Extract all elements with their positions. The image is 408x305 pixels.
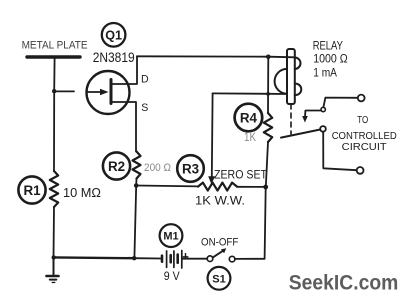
svg-text:2N3819: 2N3819 xyxy=(93,50,135,65)
relay coil loop bottom-right xyxy=(295,84,301,95)
wire bottom rail ground to battery xyxy=(54,256,135,259)
designator circle R4 xyxy=(235,104,263,132)
switch S1 contact left xyxy=(207,256,213,262)
designator circle S1 xyxy=(208,267,231,290)
svg-text:1 mA: 1 mA xyxy=(313,65,337,79)
designator circle R1 xyxy=(18,176,45,203)
svg-text:S1: S1 xyxy=(212,273,225,285)
node ground junction xyxy=(52,255,56,259)
wire battery to switch S1 xyxy=(183,258,207,260)
svg-text:TO: TO xyxy=(357,115,368,126)
node R2 bottom junction xyxy=(134,183,139,188)
transistor Q1 channel bar xyxy=(110,80,113,104)
wire drain node down to R4 xyxy=(267,57,269,113)
svg-text:SeekIC.com: SeekIC.com xyxy=(289,271,399,295)
wire R2 node to R3 xyxy=(136,185,198,188)
svg-text:CONTROLLED: CONTROLLED xyxy=(332,131,397,142)
ground xyxy=(47,257,59,282)
wire R1 to ground node xyxy=(53,207,56,257)
contact NC circle xyxy=(321,107,325,111)
svg-text:METAL PLATE: METAL PLATE xyxy=(22,39,88,51)
switch S1 blade xyxy=(213,251,223,257)
svg-text:1000 Ω: 1000 Ω xyxy=(313,52,348,66)
battery M1 plates xyxy=(162,251,182,269)
svg-text:Q1: Q1 xyxy=(105,28,122,42)
designator circle Q1 xyxy=(102,23,126,47)
wire R4 to zero-set node xyxy=(266,142,268,187)
node coil-bottom crossing xyxy=(266,92,270,96)
wire zero-set node down to S1 xyxy=(235,187,266,259)
designator circle R3 xyxy=(177,155,204,182)
node drain junction xyxy=(266,55,271,60)
battery plus sign xyxy=(183,254,188,259)
svg-text:ZERO SET: ZERO SET xyxy=(214,168,268,182)
designator circle R2 xyxy=(103,152,130,179)
wire gate node down to R1 xyxy=(53,91,55,171)
transistor Q1 gate arrow xyxy=(87,91,100,93)
svg-text:CIRCUIT: CIRCUIT xyxy=(342,142,388,153)
designator circle M1 xyxy=(160,224,183,247)
transistor Q1 source lead xyxy=(111,102,136,152)
relay armature blade xyxy=(281,130,320,138)
svg-text:RELAY: RELAY xyxy=(313,38,343,52)
svg-text:R1: R1 xyxy=(23,183,41,198)
resistor R4 zigzag xyxy=(264,113,272,142)
svg-text:M1: M1 xyxy=(163,231,178,243)
transistor Q1 body circle xyxy=(87,71,130,114)
wire wiper node to relay bottom xyxy=(213,92,287,95)
wire pivot to terminal bottom xyxy=(323,132,356,170)
wire R2 to node xyxy=(135,179,137,186)
svg-text:D: D xyxy=(141,74,149,86)
resistor R1 zigzag xyxy=(50,171,58,207)
switch S1 contact right xyxy=(229,256,235,262)
potentiometer R3 zigzag xyxy=(198,183,237,191)
wire R2 node down to bottom rail xyxy=(134,186,136,259)
relay linkage dashed line xyxy=(290,104,292,134)
metal plate xyxy=(27,55,80,58)
relay core rectangle xyxy=(287,49,295,104)
node zero-set junction xyxy=(263,185,268,190)
svg-text:200 Ω: 200 Ω xyxy=(144,162,171,174)
node gate junction xyxy=(52,89,56,93)
svg-text:S: S xyxy=(141,102,148,114)
svg-text:ON-OFF: ON-OFF xyxy=(201,236,238,248)
wire drain node to relay top xyxy=(137,56,295,57)
wire gate stub xyxy=(54,90,74,92)
svg-text:R3: R3 xyxy=(182,161,199,176)
relay coil loop left xyxy=(275,69,287,94)
svg-text:R4: R4 xyxy=(240,110,258,125)
contact pivot circle xyxy=(320,126,326,132)
relay coil loop top-right xyxy=(295,58,301,69)
terminal bottom-right xyxy=(357,167,364,174)
transistor Q1 drain lead xyxy=(111,56,137,84)
svg-text:R2: R2 xyxy=(108,159,125,174)
wire contact elbow with arrow xyxy=(305,111,321,118)
wire plate to gate node xyxy=(53,59,55,92)
potentiometer R3 wiper arrow xyxy=(211,93,214,177)
svg-text:9 V: 9 V xyxy=(164,270,180,283)
node bottom rail junction xyxy=(132,256,136,260)
wire R3 to zero-set node xyxy=(237,186,266,188)
svg-text:1K W.W.: 1K W.W. xyxy=(195,194,245,208)
resistor R2 zigzag xyxy=(133,152,141,179)
svg-text:10 MΩ: 10 MΩ xyxy=(63,185,101,200)
terminal top-right xyxy=(358,95,365,102)
svg-text:1K: 1K xyxy=(244,132,256,144)
wire top contact xyxy=(323,98,357,108)
